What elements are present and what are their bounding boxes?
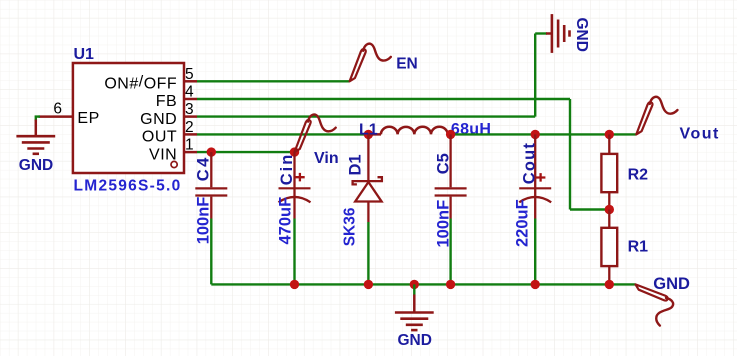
svg-text:3: 3 [185,101,194,118]
inductor L1 [368,127,450,135]
svg-text:OUT: OUT [142,129,177,146]
U1 pin name FB [156,93,177,110]
Cin value label 470uF [277,197,295,245]
svg-text:R1: R1 [628,238,649,255]
IC U1 body LM2596S-5.0 [73,63,184,173]
wire GND net vertical up [534,34,536,117]
svg-text:D1: D1 [347,154,365,175]
svg-text:GND: GND [398,332,432,349]
svg-text:Cout: Cout [521,142,539,184]
svg-text:5: 5 [185,66,194,83]
U1 pin name ON#/OFF [104,74,177,93]
svg-text:470uF: 470uF [277,197,295,245]
wire FB net vertical [569,99,571,210]
capacitor C4 [195,152,227,218]
net label EN [396,56,418,73]
D1 value label SK36 [342,207,359,246]
wire C4 to bottom rail [210,219,212,285]
svg-text:Vout: Vout [680,125,720,142]
capacitor Cin (polarized) [279,152,311,218]
svg-text:ON#/OFF: ON#/OFF [104,74,177,93]
Cin reference label [278,153,296,186]
U1 pin 5 stub [184,80,197,83]
wire Cout to bottom rail [534,219,536,285]
net flag Vout squiggle [636,97,677,135]
svg-text:100nF: 100nF [195,197,213,245]
svg-text:Cin: Cin [278,153,296,186]
U1 pin 3 stub [184,115,197,118]
U1 pin 4 stub [184,98,197,101]
L1 reference label [359,122,378,139]
R1 reference label [628,238,649,255]
net flag Vin squiggle [295,114,336,152]
ground left [16,136,55,154]
wire GND net from pin 3 [197,115,535,117]
net label Vout [680,125,720,142]
U1 reference label [74,46,95,63]
L1 value label 68uH [451,121,491,138]
wire EP to ground [36,117,40,137]
resistor R1 [601,210,617,285]
wire switch node pin 2 to D1 [197,133,370,135]
Cout value label 220uF [514,199,532,247]
svg-text:Vin: Vin [314,150,339,167]
diode D1 SK36 (Schottky) [353,134,382,222]
svg-text:6: 6 [53,101,62,118]
svg-text:C4: C4 [195,155,213,181]
U1 pin name EP [77,110,99,127]
node Cout top junction [531,130,540,139]
node D1 bottom junction [364,280,373,289]
wire Vout rail from L1 to flag [451,133,637,135]
capacitor C5 [435,134,467,218]
svg-text:EP: EP [77,110,99,127]
U1 pin number 1 [185,137,194,154]
svg-text:GND: GND [573,18,590,52]
svg-text:C5: C5 [435,153,453,174]
svg-text:1: 1 [185,137,194,154]
svg-text:VIN: VIN [149,146,177,163]
U1 pin 2 stub [184,133,197,136]
svg-text:SK36: SK36 [342,207,359,246]
wire GND net to top ground [535,32,547,34]
node feedback junction [605,205,614,214]
net flag EN squiggle [350,44,391,82]
wire bottom ground rail [211,283,635,285]
U1 pin 6 stub [39,115,73,118]
ground bottom [395,313,434,331]
C4 reference label [195,155,213,181]
node C4 junction [207,147,216,156]
svg-text:220uF: 220uF [514,199,532,247]
wire D1 to bottom rail [367,222,369,284]
U1 value label [74,177,182,194]
ground bottom GND text [398,332,432,349]
node Cout bottom junction [531,280,540,289]
wire C5 to bottom rail [449,219,451,285]
svg-text:EN: EN [396,56,418,73]
U1 pin 1 stub [184,151,197,154]
net flag GND right squiggle [636,284,674,325]
node C5 top junction [446,130,455,139]
svg-text:GND: GND [653,275,690,293]
U1 pin name OUT [142,129,177,146]
node Cin/Vin junction [290,147,299,156]
U1 pin number 3 [185,101,194,118]
node R1 bottom junction [605,280,614,289]
wire FB net to divider [570,208,609,210]
C4 value label 100nF [195,197,213,245]
svg-text:R2: R2 [628,167,649,184]
node R2 top junction [605,130,614,139]
C5 reference label [435,153,453,174]
U1 pin name VIN [149,146,177,163]
wire Cin to bottom rail [293,219,295,285]
node D1 top junction [364,130,373,139]
ground top (rotated) [546,14,570,53]
node Cin bottom junction [290,280,299,289]
D1 reference label [347,154,365,175]
wire to bottom ground [413,284,415,312]
capacitor Cout (polarized) [519,134,551,218]
U1 pin number 6 [53,101,62,118]
svg-text:LM2596S-5.0: LM2596S-5.0 [74,177,182,194]
ground top GND text [573,18,590,52]
wire FB net horizontal from pin 4 [197,98,570,100]
U1 pin number 4 [185,84,194,101]
C5 value label 100nF [435,200,453,248]
ground left GND text [19,157,53,174]
U1 pin number 5 [185,66,194,83]
net label Vin [314,150,339,167]
svg-text:FB: FB [156,93,177,110]
U1 pin number 2 [185,119,194,136]
svg-text:U1: U1 [74,46,95,63]
wire EN net (pin 5) [197,80,350,82]
net label GND right [653,275,690,293]
svg-text:2: 2 [185,119,194,136]
wire VIN from pin 1 [197,151,295,153]
R2 reference label [628,167,649,184]
svg-text:GND: GND [140,111,177,128]
Cout reference label [521,142,539,184]
node ground stem junction [410,280,419,289]
resistor R2 [601,134,617,209]
node C5 bottom junction [446,280,455,289]
svg-text:GND: GND [19,157,53,174]
U1 pin name GND [140,111,177,128]
svg-text:4: 4 [185,84,194,101]
